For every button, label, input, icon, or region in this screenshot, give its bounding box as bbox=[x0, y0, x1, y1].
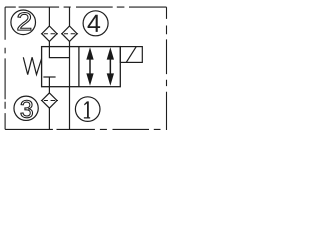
port number labels: solid digits 4 and 1 bbox=[84, 15, 100, 119]
label 4 bbox=[88, 15, 101, 32]
wire port 2 upper (boundary to filter F1) bbox=[48, 7, 50, 26]
port circles bbox=[11, 10, 108, 121]
valve V1 left position: through line port4 to port1 bbox=[69, 47, 71, 87]
wire filter F3 to boundary bbox=[48, 108, 50, 129]
filter F1 diamond bbox=[42, 26, 57, 41]
solenoid S1 diagonal bbox=[126, 47, 136, 63]
arrow A2 double-headed bbox=[107, 47, 114, 59]
valve V1 position divider bbox=[78, 47, 80, 87]
filter F2 dashed element line bbox=[61, 33, 78, 35]
label 1 bbox=[84, 101, 90, 118]
valve V1 body outline bbox=[42, 47, 121, 87]
label 3 bbox=[21, 100, 33, 118]
wire filter F2 to valve bbox=[69, 41, 71, 46]
valve V1 left position: blocked port 3 crossbar bbox=[43, 76, 55, 78]
spring (W zigzag) bbox=[23, 57, 41, 74]
solenoid S1 box bbox=[120, 47, 142, 63]
valve V1 left position: flow path port2 down to bus bbox=[49, 47, 69, 58]
wire port 3 (valve bottom to filter F3) bbox=[48, 87, 50, 93]
cartridge boundary top border (dash-dot) bbox=[5, 6, 166, 8]
cartridge boundary right border (dash-dot) bbox=[166, 7, 168, 130]
wire filter F1 to valve bbox=[48, 41, 50, 46]
filter F3 diamond bbox=[42, 93, 57, 108]
node 4 circle bbox=[83, 11, 108, 36]
node 2 circle bbox=[11, 10, 36, 35]
label 2 bbox=[18, 13, 31, 31]
arrow A1 double-headed bbox=[86, 47, 93, 59]
node 1 circle bbox=[75, 97, 100, 122]
filter F2 diamond bbox=[62, 26, 77, 41]
filter F1 dashed element line bbox=[41, 33, 58, 35]
port number labels: outline digits 2 and 3 bbox=[18, 13, 33, 118]
cartridge boundary bottom border (dash-dot) bbox=[5, 128, 160, 130]
wire port 4 upper (boundary to filter F2) bbox=[69, 7, 71, 26]
valve V1 left position: blocked port 3 stem bbox=[48, 77, 50, 87]
filter F3 dashed element line bbox=[41, 100, 58, 102]
cartridge boundary left border (dash-dot) bbox=[4, 7, 6, 129]
node 3 circle bbox=[14, 96, 38, 120]
wire valve bottom to port 1 (through boundary tee) bbox=[69, 87, 71, 130]
valve arrows group bbox=[86, 47, 114, 86]
